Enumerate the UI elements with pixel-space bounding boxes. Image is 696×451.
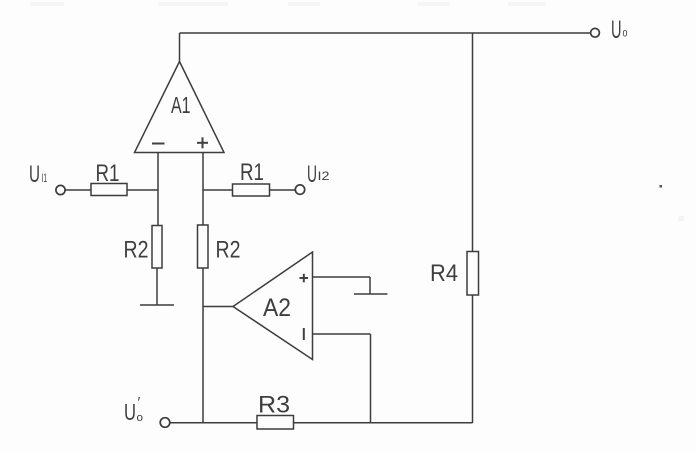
svg-text:A1: A1 (171, 92, 191, 118)
svg-text:I1: I1 (42, 171, 48, 185)
svg-text:R3: R3 (258, 392, 290, 419)
svg-text:o: o (623, 26, 628, 40)
svg-text:U: U (611, 16, 622, 44)
svg-text:R2: R2 (216, 237, 241, 264)
svg-text:′: ′ (138, 394, 141, 411)
svg-text:o: o (137, 412, 144, 424)
svg-text:I2: I2 (318, 169, 330, 183)
svg-text:R1: R1 (240, 159, 264, 186)
svg-text:R2: R2 (124, 237, 149, 264)
svg-text:U: U (307, 161, 317, 188)
svg-text:U: U (29, 161, 40, 188)
svg-text:A2: A2 (263, 294, 291, 322)
svg-text:R1: R1 (96, 160, 120, 187)
svg-text:U: U (124, 399, 136, 425)
svg-text:R4: R4 (430, 260, 458, 287)
